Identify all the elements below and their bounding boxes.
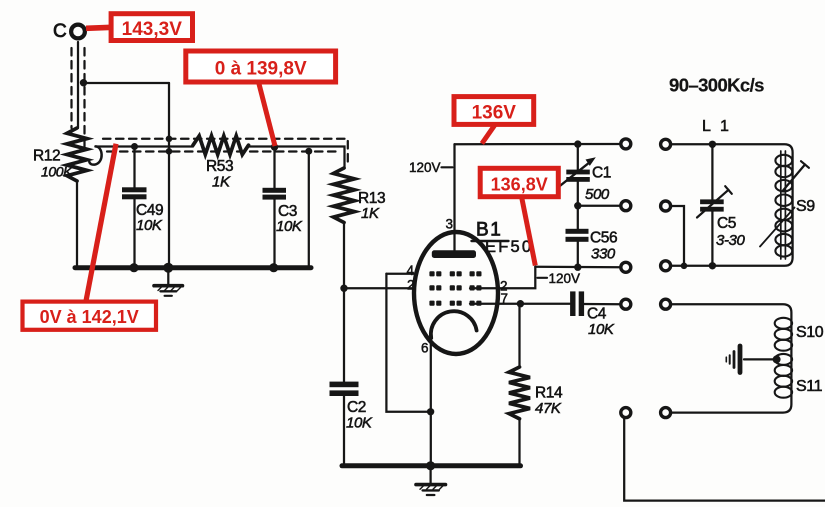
wire (pin 2 right lead, screen to -120V) (470, 267, 535, 288)
capacitor C1 500 (variable) (560, 144, 611, 206)
svg-text:90–300Kc/s: 90–300Kc/s (669, 75, 764, 96)
svg-text:S9: S9 (796, 198, 815, 215)
cathode arc of B1 (431, 311, 477, 338)
terminal C (input) (53, 21, 85, 42)
capacitor C4 10K (570, 291, 621, 338)
terminal (right column, L1 bottom) (661, 261, 671, 271)
node (L1 bottom) (709, 262, 716, 269)
wire (grid line from wiper to R13, y=146.5) (96, 145, 193, 147)
inductor S10/S11 (coupling coil) (775, 318, 792, 398)
wire (tube pin 4 stub) (386, 273, 439, 275)
svg-text:R12: R12 (33, 148, 60, 165)
svg-text:120V: 120V (549, 271, 581, 286)
node (L1 top) (709, 141, 716, 148)
shield dashed line below grid wire (107, 150, 339, 152)
label pointer S9 (760, 208, 795, 247)
node (rail / C1 top) (574, 140, 581, 147)
svg-text:10K: 10K (588, 321, 615, 338)
wire (return lead to bottom edge) (624, 419, 825, 501)
node (drop crosses lower shield dash) (166, 148, 173, 155)
svg-text:136V: 136V (472, 102, 517, 123)
wire (bottom ground bus) (342, 463, 521, 468)
svg-text:4: 4 (407, 263, 415, 278)
wire (L1 top wire to S9 coil) (671, 144, 793, 265)
tube designator B1 (472, 220, 534, 257)
annotation lead (0V a 142,1V to wiper wire) (86, 144, 116, 302)
svg-text:C56: C56 (590, 230, 617, 247)
capacitor C49 10K (122, 147, 163, 267)
svg-text:143,3V: 143,3V (122, 19, 183, 40)
svg-text:7: 7 (501, 291, 509, 306)
svg-text:R53: R53 (206, 158, 233, 175)
wire (pin 3 anode lead) (453, 144, 455, 250)
svg-text:10K: 10K (276, 218, 303, 235)
terminal (right column, S11 bottom) (661, 408, 671, 418)
shield dashed line right of input wire (83, 48, 85, 150)
terminal (right column, S10 top) (661, 299, 671, 309)
resistor R12 100K (potentiometer body) (33, 128, 87, 181)
svg-text:EF50: EF50 (485, 238, 533, 256)
node (S10/S11 center tap) (773, 355, 781, 363)
node (R13 / C2 / pin2 junction) (340, 285, 347, 292)
wire (S10 top wire) (671, 304, 792, 412)
svg-text:10K: 10K (136, 217, 163, 234)
annotation lead (0 a 139,8V to C3 node) (259, 82, 276, 146)
terminal (left column, C4 output) (621, 299, 631, 309)
resistor R14 47K (509, 304, 563, 464)
svg-text:S10: S10 (796, 324, 824, 341)
terminal (right column, L1 top) (661, 139, 671, 149)
ground (chassis symbol at coil tap) (726, 346, 740, 373)
resistor R13 1K (334, 168, 386, 223)
annotation box 143,3V (111, 14, 192, 41)
node (C49 on bus) (129, 263, 138, 272)
wire (mid tap to terminal) (578, 205, 621, 207)
capacitor C56 330 (566, 206, 618, 268)
ground (earth symbol under left bus) (154, 268, 183, 296)
wiper of R12 (hook) (89, 146, 101, 164)
annotation lead (143,3V to terminal C) (86, 27, 112, 28)
node (C3 on bus) (269, 263, 278, 272)
node (C3 top, measured point 0 a 139,8V) (271, 143, 278, 150)
terminal (left column, anode rail) (621, 139, 631, 149)
wire (R13 bottom to pin2 node) (343, 223, 345, 289)
svg-text:L 1: L 1 (702, 118, 731, 135)
wire (-120V rail to terminal) (535, 266, 621, 269)
core lines of S9 (781, 151, 786, 259)
svg-text:100K: 100K (41, 164, 73, 180)
svg-text:500: 500 (585, 186, 610, 203)
label -120V (screen supply, right) (538, 271, 581, 286)
capacitor C5 3-30 (trimmer) (697, 144, 745, 265)
terminal (left column, -120V rail) (621, 262, 631, 272)
node (C49 top / grid wire) (131, 143, 138, 150)
wire (R53 to R13 corner) (249, 147, 345, 169)
svg-text:C5: C5 (717, 215, 736, 232)
svg-text:1K: 1K (212, 174, 231, 191)
svg-text:C4: C4 (587, 306, 607, 323)
svg-text:136,8V: 136,8V (491, 175, 548, 195)
annotation box 136,8V (480, 168, 558, 196)
wire (pin 6 cathode lead) (430, 338, 432, 466)
svg-text:R14: R14 (535, 385, 563, 402)
svg-text:0 à 139,8V: 0 à 139,8V (215, 59, 307, 80)
svg-text:2: 2 (407, 278, 415, 293)
svg-text:S11: S11 (796, 378, 823, 395)
wire (shield tap down to bus end) (308, 151, 310, 266)
svg-text:3: 3 (446, 217, 454, 232)
node (pin7 / R14 junction) (517, 300, 524, 307)
capacitor C2 10K (330, 288, 373, 464)
node (drop crosses upper shield dash) (166, 136, 173, 143)
node (cathode junction) (427, 408, 434, 415)
svg-text:C: C (53, 21, 66, 42)
inductor S9 (tuning coil) (775, 155, 792, 257)
capacitor C3 10K (263, 147, 303, 266)
annotation box 0V a 142,1V (23, 302, 157, 330)
shield dashed line above grid wire (103, 139, 348, 166)
annotation lead (136V to anode rail) (482, 124, 496, 144)
resistor R53 1K (193, 136, 249, 191)
wire (anode 136V rail) (455, 143, 621, 145)
wire (node to tube pin 2 left) (344, 287, 439, 289)
wire (R12 bottom to ground bus) (76, 181, 78, 266)
svg-text:C2: C2 (347, 399, 366, 416)
node (shield tap junction) (80, 79, 87, 86)
grids of B1 (three rows of dashed electrodes) (429, 271, 481, 306)
svg-text:C1: C1 (592, 165, 611, 182)
node (lower shield dash ground tap) (305, 148, 312, 155)
wire (center tap to chassis) (744, 358, 777, 360)
node (cathode to bus) (426, 461, 435, 470)
adjustable core arrow of S9 (783, 161, 809, 190)
tube B1 EF50 envelope (414, 232, 498, 354)
wire (input conductor down to R12) (77, 42, 79, 128)
node (tap joins L1 bottom wire) (681, 263, 688, 270)
annotation box 0 a 139,8V (186, 51, 336, 82)
svg-text:10K: 10K (346, 415, 373, 432)
wire (shield ground tap, horizontal at y=83) (84, 82, 170, 84)
shield dashed line left of input wire (70, 48, 72, 128)
svg-text:0V à 142,1V: 0V à 142,1V (40, 307, 139, 327)
ground (earth symbol under bottom bus) (416, 466, 446, 495)
svg-text:1K: 1K (361, 205, 380, 222)
svg-text:6: 6 (421, 341, 429, 356)
wire (left ground bus) (75, 265, 311, 270)
terminal (left column, return) (621, 408, 631, 418)
node (C1/C56 mid tap) (574, 202, 581, 209)
anode bar of B1 (432, 250, 476, 258)
terminal (left column, C1/C56 tap) (621, 201, 631, 211)
terminal (right column, C5 tap) (661, 201, 671, 211)
label 120V (anode supply, left) (409, 160, 453, 175)
wire (C5 tap from middle terminal) (671, 206, 684, 266)
node (ground drop on bus) (163, 263, 173, 273)
node (C56 bottom / -120V rail) (574, 264, 581, 271)
wire (shield ground drop x=169) (168, 83, 170, 266)
svg-text:120V: 120V (409, 160, 441, 175)
svg-text:47K: 47K (535, 400, 562, 417)
svg-text:330: 330 (591, 246, 616, 263)
wire (pin 7 lead to C4) (470, 303, 570, 305)
svg-text:3-30: 3-30 (716, 232, 745, 249)
annotation lead (136,8V to screen corner) (522, 197, 536, 266)
annotation box 136V (454, 97, 534, 125)
wire (pin 4 drop to cathode line) (386, 274, 430, 412)
